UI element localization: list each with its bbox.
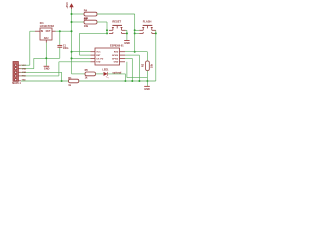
wire IN left <box>30 30 35 32</box>
svg-text:OUT: OUT <box>46 31 51 33</box>
wire down RESET left <box>106 22 108 33</box>
junction OUT/3V3 <box>71 30 73 32</box>
svg-text:LD1117V33: LD1117V33 <box>40 24 55 28</box>
ground GND (reset) <box>124 41 130 46</box>
svg-text:TXD: TXD <box>22 80 27 82</box>
wire header pin3 <box>21 71 62 73</box>
junction LED/GND <box>124 80 126 82</box>
junction rail <box>61 80 63 82</box>
svg-text:GPIO0: GPIO0 <box>112 55 119 57</box>
wire regulator adj down <box>45 43 47 66</box>
svg-text:RESET: RESET <box>112 19 121 23</box>
pushbutton S2 FLASH <box>139 25 156 33</box>
svg-text:FLASH: FLASH <box>143 19 152 23</box>
ground GND1 <box>44 66 50 70</box>
wire bottom rail <box>79 80 156 82</box>
wire header pin4 TXD <box>21 75 59 77</box>
junction RXD <box>134 51 136 53</box>
wire RESET right to gnd <box>126 29 127 31</box>
wire GPIO2 down <box>125 57 132 59</box>
wire RST to ESP <box>80 54 91 56</box>
wire GND rail left <box>34 57 60 59</box>
junction VCC <box>71 51 73 53</box>
wire R5 to LED <box>96 73 104 75</box>
wire RXD to R2 <box>125 51 147 53</box>
svg-text:R2: R2 <box>142 63 145 67</box>
wire R3 to RESET <box>97 21 107 23</box>
pin header JP1 <box>13 62 21 82</box>
junction RESET left <box>106 29 108 31</box>
junction RESET right <box>126 32 128 34</box>
voltage regulator IC1 <box>35 28 56 43</box>
junction FLASH left lower <box>134 32 136 34</box>
svg-text:VCC: VCC <box>22 65 27 67</box>
wire header pin5 rail <box>21 80 69 82</box>
svg-text:RST: RST <box>96 55 101 57</box>
svg-text:GND: GND <box>44 68 50 71</box>
wire 3V3 to R5 <box>72 73 86 75</box>
wire header pin2 gnd <box>21 68 34 70</box>
junction FLASH left <box>134 29 136 31</box>
svg-text:ADJ: ADJ <box>44 37 49 40</box>
svg-text:GND: GND <box>22 72 27 74</box>
svg-text:GND: GND <box>144 88 150 91</box>
junction rail R2 <box>146 80 148 82</box>
junction OUT/C1 <box>59 30 61 32</box>
wire OUT to 3V3 <box>56 30 72 32</box>
svg-text:MA05-1: MA05-1 <box>12 82 21 85</box>
junction 3V3/R3 <box>71 21 73 23</box>
wire led gnd link <box>127 77 147 79</box>
resistor R5 <box>85 72 96 76</box>
wire R2 bottom to gnd <box>146 71 148 87</box>
pushbutton S1 RESET <box>109 25 126 33</box>
wire C1 top <box>59 31 61 45</box>
svg-text:IN: IN <box>41 31 44 33</box>
LED1 <box>104 72 110 78</box>
svg-text:100n: 100n <box>63 47 69 50</box>
wire 3V3 branch to R4 <box>72 13 85 15</box>
ESP8266 module U1 <box>91 48 126 65</box>
resistor R2 vertical <box>146 61 150 71</box>
wire ESP GND down <box>126 62 128 78</box>
capacitor C1 <box>57 45 62 47</box>
svg-text:R4: R4 <box>84 8 88 12</box>
junction rail GPIO0 <box>138 80 140 82</box>
junction 3V3/R4 <box>71 13 73 15</box>
resistor R1 <box>69 79 79 83</box>
svg-text:1k: 1k <box>85 77 88 80</box>
svg-text:1k: 1k <box>68 84 71 87</box>
wire IN down <box>29 31 31 65</box>
svg-text:GND: GND <box>22 68 27 70</box>
wire FLASH left to junction <box>135 29 140 31</box>
wire GPIO0 down <box>125 54 139 56</box>
wire LED right <box>108 73 126 75</box>
junction gnd rail <box>45 57 47 59</box>
wire R4 to corner <box>97 13 135 15</box>
wire C1 bottom <box>59 48 61 59</box>
svg-text:CH_PD: CH_PD <box>96 58 103 60</box>
junction RESET left lower <box>106 32 108 34</box>
svg-text:R3: R3 <box>84 17 88 21</box>
svg-text:10k: 10k <box>84 24 89 28</box>
svg-text:VCC: VCC <box>96 52 101 54</box>
wire FLASH right down to rail <box>155 30 157 81</box>
wire 3V3 vertical main <box>71 9 73 74</box>
svg-text:10k: 10k <box>151 63 154 68</box>
svg-text:LED1: LED1 <box>102 69 109 72</box>
wire CH_PD row <box>72 57 91 59</box>
wire RST net horizontal <box>80 32 108 34</box>
wire VCC row <box>72 51 91 53</box>
svg-text:GPIO2: GPIO2 <box>112 58 119 60</box>
svg-text:ESP8266-01: ESP8266-01 <box>110 45 124 48</box>
junction CH_PD <box>71 57 73 59</box>
svg-text:RXD: RXD <box>114 52 119 54</box>
supply +3V3 arrow <box>69 3 73 9</box>
wire down to RXD row <box>134 14 136 52</box>
svg-text:+3V3: +3V3 <box>65 2 69 9</box>
wire 3V3 branch to R3 <box>72 21 85 23</box>
svg-text:RXD: RXD <box>22 76 27 78</box>
resistor R4 <box>84 12 97 16</box>
junction FLASH right lower <box>155 32 157 34</box>
svg-text:GND: GND <box>114 62 119 64</box>
wire to header pin1 <box>21 64 30 66</box>
resistor R3 <box>84 20 97 24</box>
svg-text:GND: GND <box>124 42 130 45</box>
wire RST net vertical <box>79 33 81 55</box>
ground GND2 <box>144 86 150 91</box>
junction rail GPIO2 <box>131 80 133 82</box>
svg-text:TXD: TXD <box>96 62 101 64</box>
svg-text:optional: optional <box>112 71 121 74</box>
